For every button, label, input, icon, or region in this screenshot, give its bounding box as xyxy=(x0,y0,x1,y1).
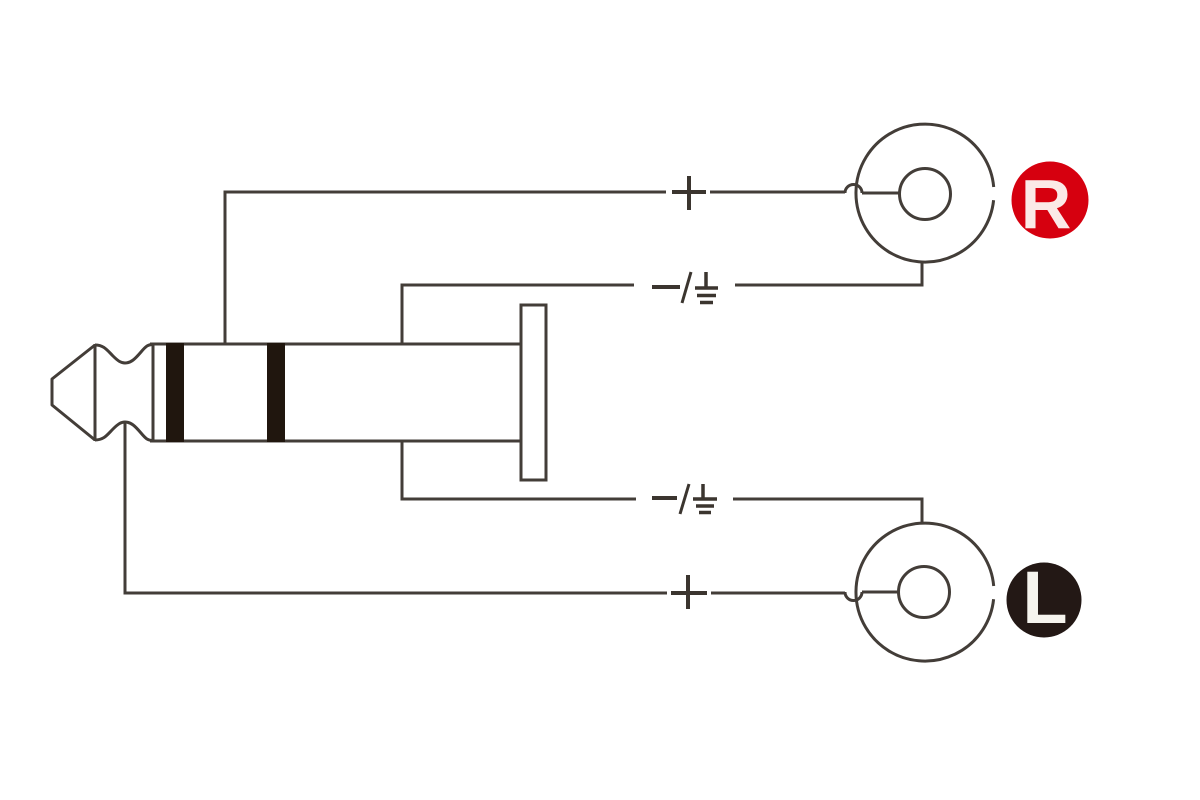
R badge circle xyxy=(1012,162,1089,239)
wire: tip contact to L signal row (riser) xyxy=(125,423,667,593)
wire: L ground row to L shell xyxy=(733,499,922,524)
wire: R signal row to R phono pin xyxy=(710,191,845,194)
earth symbol (L ground) xyxy=(693,484,717,513)
wire: ring contact to R signal row (riser) xyxy=(225,192,666,344)
insulator band 1 (tip/ring separator) xyxy=(166,343,184,442)
jack plug tip cone xyxy=(52,345,95,440)
plus symbol (L signal) xyxy=(671,575,707,609)
jack barrel left end edge xyxy=(152,344,155,441)
jack plug tip base edge xyxy=(94,344,97,441)
jack plug neck groove bottom edge xyxy=(95,422,153,441)
wire: R ground row to R shell xyxy=(735,262,922,285)
wire: hop to R center pin xyxy=(862,192,899,195)
wire: hop to L center pin xyxy=(862,591,899,594)
L badge letter xyxy=(1022,556,1067,639)
earth symbol (R ground) xyxy=(695,272,718,303)
L phono center pin (inner circle) xyxy=(899,567,950,618)
L phono shell (outer circle with gap) xyxy=(856,523,994,661)
jack rear flange xyxy=(521,305,546,480)
minus dash (R ground) xyxy=(652,285,680,289)
svg-text:R: R xyxy=(1021,165,1072,243)
insulator band 2 (ring/sleeve separator) xyxy=(267,343,285,442)
jack barrel bottom edge xyxy=(150,440,521,443)
minus dash (L ground) xyxy=(652,496,677,500)
plus symbol (R signal) xyxy=(672,176,706,210)
wire: L signal row to L phono pin xyxy=(711,592,845,595)
R phono shell (outer circle with gap) xyxy=(856,124,994,262)
slash (R ground) xyxy=(682,272,691,303)
wire: sleeve to L ground row xyxy=(402,441,636,499)
jack barrel top edge xyxy=(150,343,521,346)
R badge letter xyxy=(1021,165,1072,243)
L badge circle xyxy=(1007,563,1082,638)
wire: sleeve to R ground row xyxy=(402,285,634,344)
wire hop over R shell circle xyxy=(845,185,862,194)
R phono center pin (inner circle) xyxy=(900,169,951,220)
svg-text:L: L xyxy=(1022,556,1067,639)
jack plug neck groove top edge xyxy=(95,345,153,364)
slash (L ground) xyxy=(680,484,689,514)
wire hop over L shell circle xyxy=(845,592,862,601)
